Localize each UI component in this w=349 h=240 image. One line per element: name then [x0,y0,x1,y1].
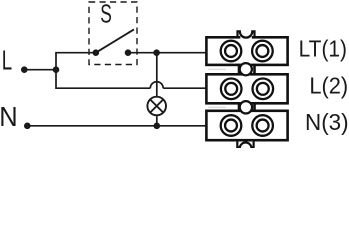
junction A dot [53,66,60,73]
svg-text:L(2): L(2) [309,73,348,99]
switch S left contact dot [93,49,100,56]
junction C dot [154,123,161,130]
terminal block N(3) body [206,111,287,140]
wire: switch right contact to terminal LT(1) [128,52,207,54]
wire: junction A down then right to terminal L(2) with hop [56,70,150,89]
svg-text:LT(1): LT(1) [299,36,347,62]
bottom tab notch of block N(3) [237,140,253,147]
switch S right contact dot [125,49,132,56]
screw terminal 1a of LT(1) [221,41,242,62]
screw terminal 1b of LT(1) [252,41,273,62]
wire: lamp bottom to junction C [156,116,158,126]
top collar notch of block LT(1) [240,36,252,39]
wire: hop to terminal L(2) [163,87,206,89]
svg-text:L: L [2,44,12,75]
screw terminal 2a of L(2) [221,79,242,100]
switch S enclosure (dashed box) [89,2,137,65]
screw terminal 3a of N(3) [221,115,242,136]
junction B dot [153,49,160,56]
lamp E1 [147,97,166,116]
wire: junction A up and right to switch left contact [56,53,96,70]
svg-text:N(3): N(3) [305,109,349,135]
svg-text:N: N [0,101,18,132]
wire hop over lamp feed [150,82,163,88]
node dot L terminal [21,66,28,73]
wire: N terminal to terminal N(3) [27,125,206,127]
terminal block L(2) body [206,74,287,103]
screw terminal 2b of L(2) [252,79,273,100]
screw terminal 3b of N(3) [252,115,273,136]
switch S blade [96,29,134,52]
terminal block LT(1) body [206,37,287,65]
junction slot between LT(1) and L(2) [208,63,255,75]
wire: L terminal to junction A [24,69,56,71]
junction slot between L(2) and N(3) [208,101,255,113]
svg-text:S: S [100,0,112,28]
wire: junction B down to lamp top [156,53,158,96]
node dot N terminal [24,123,31,130]
